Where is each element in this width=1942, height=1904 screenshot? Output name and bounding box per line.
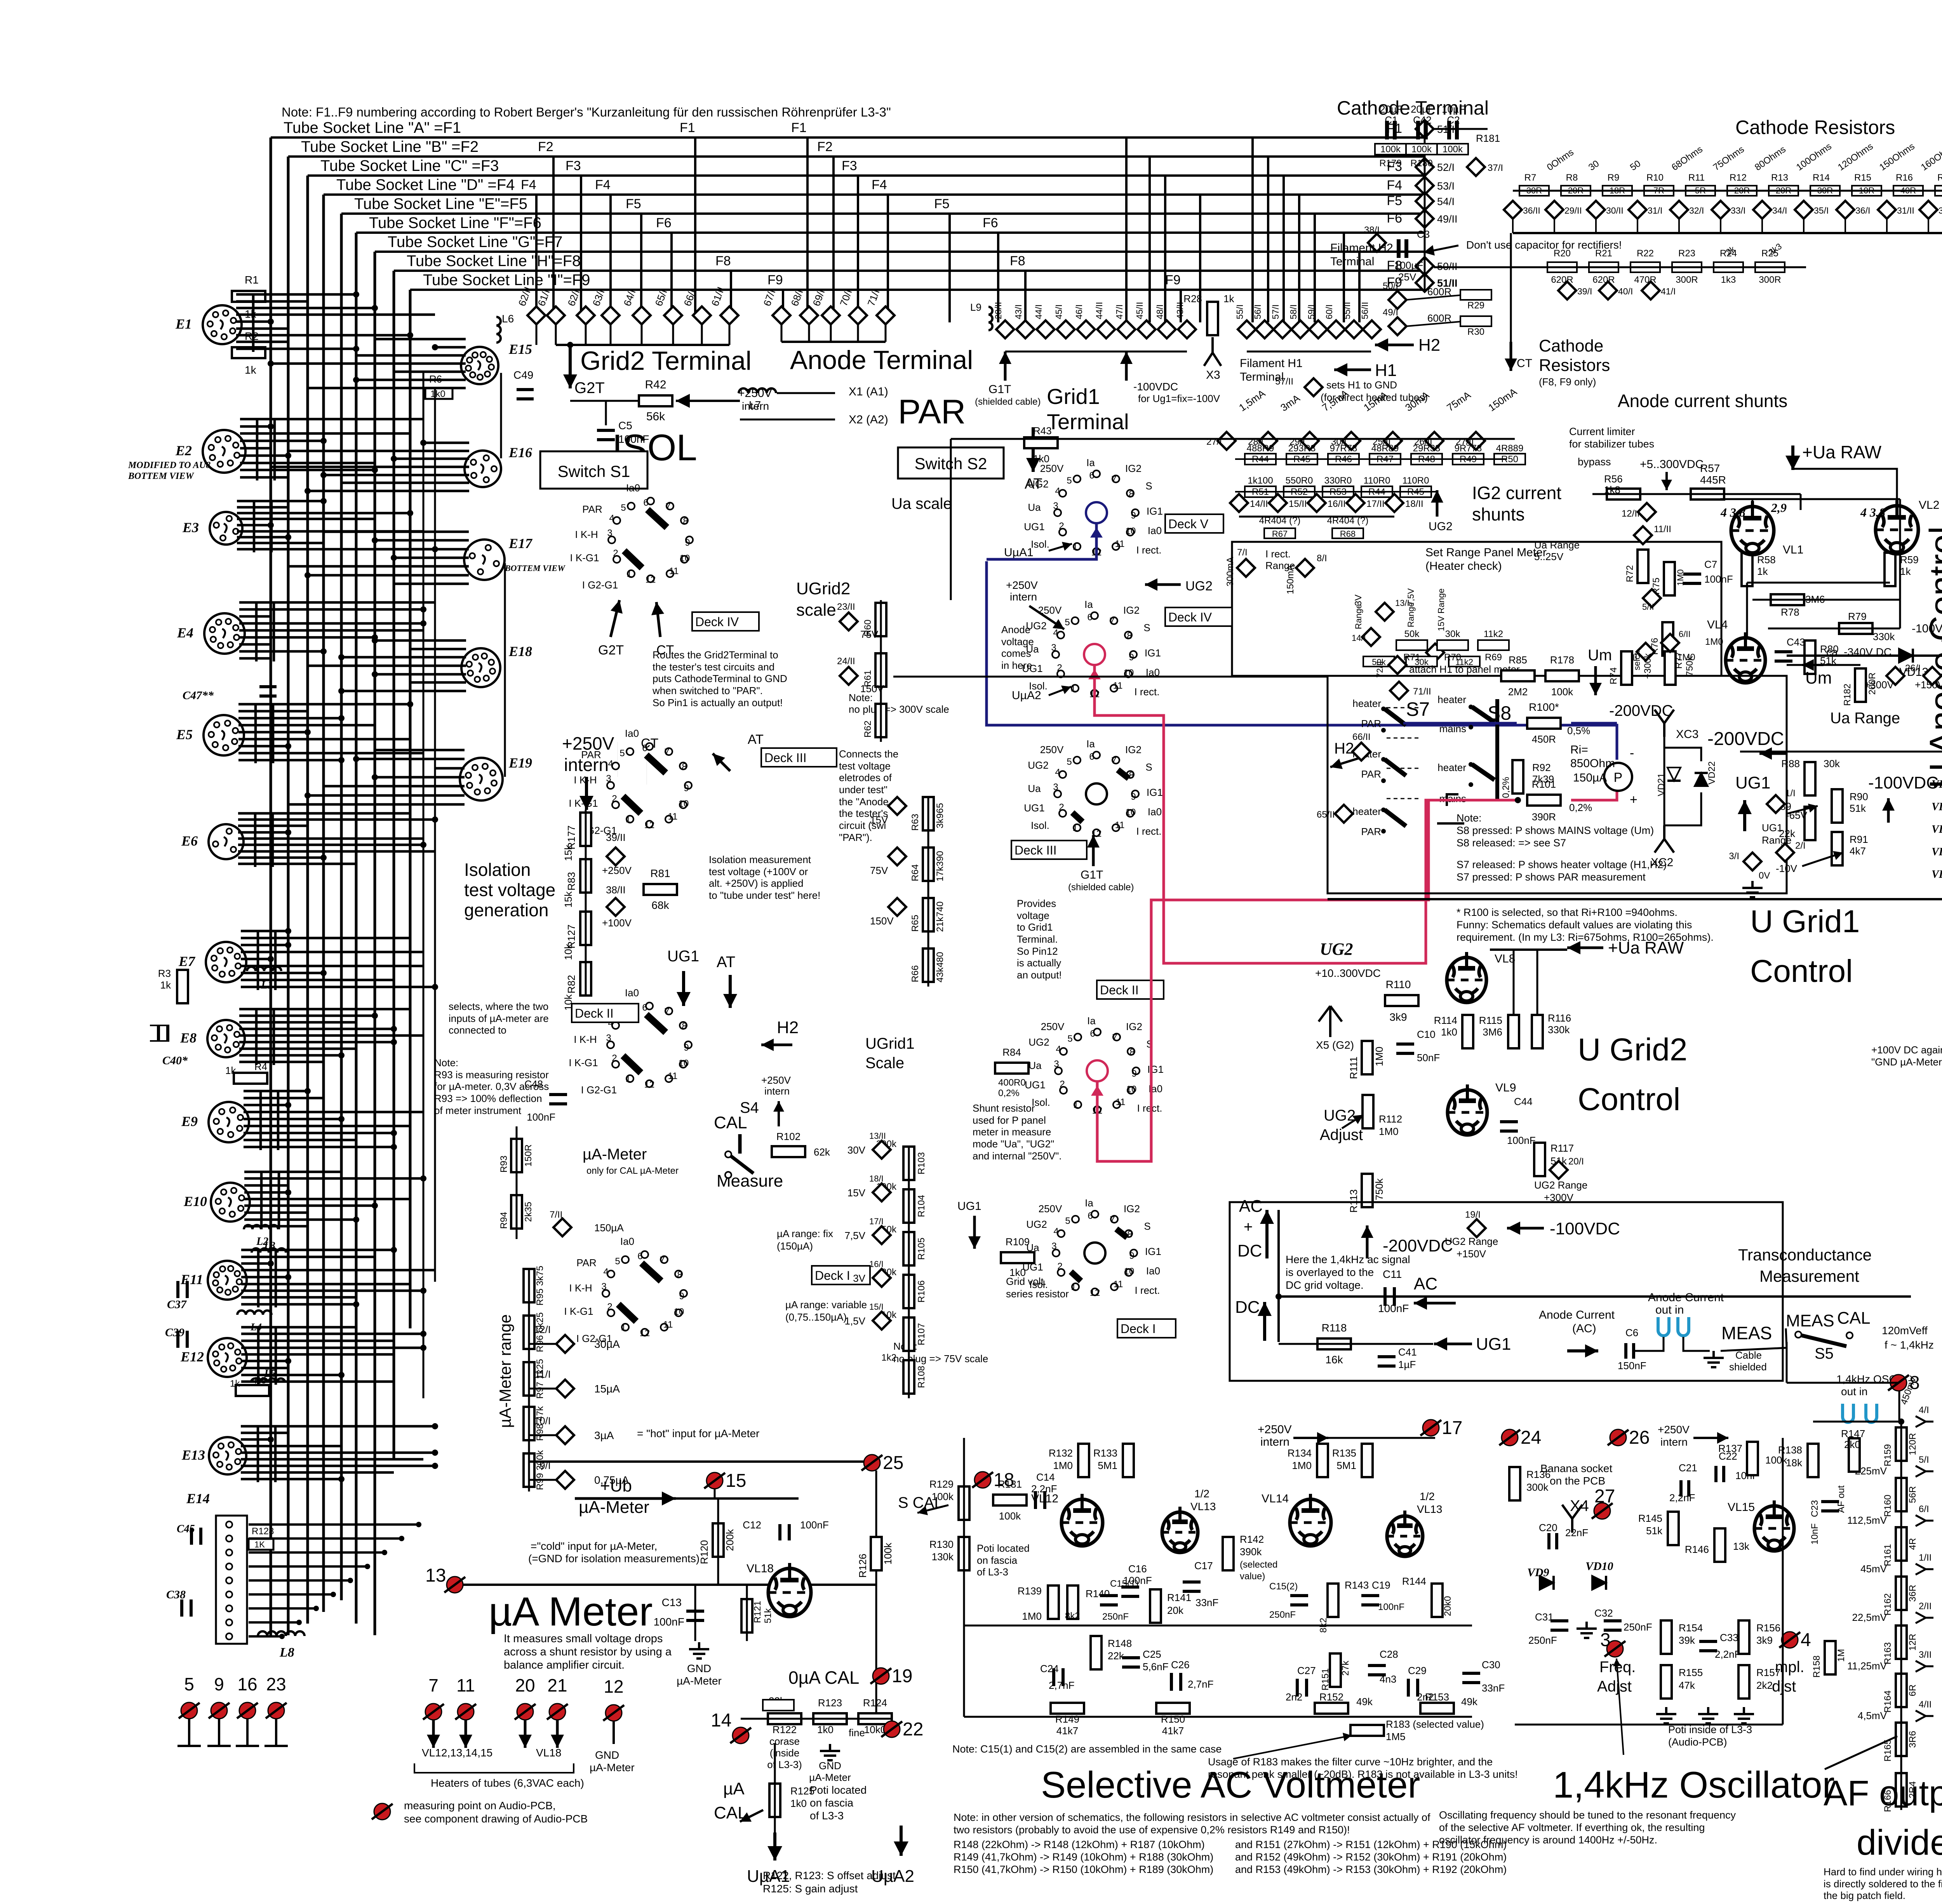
svg-text:Ia: Ia [1086, 738, 1095, 750]
plug 71/I [877, 306, 894, 324]
resistor R152 49k [1315, 1703, 1348, 1714]
capacitor C28 4n3 [1368, 1666, 1386, 1675]
resistor R58 1k [1742, 553, 1752, 586]
wire vm mid rail [964, 1625, 1472, 1627]
svg-text:F5: F5 [1387, 193, 1402, 208]
arrow point 21 [551, 1720, 564, 1748]
resistor R57 445R [1691, 489, 1724, 499]
arrow G1T [999, 352, 1011, 381]
svg-text:19: 19 [892, 1666, 912, 1686]
svg-text:* R100 is selected, so that Ri: * R100 is selected, so that Ri+R100 =940… [1456, 907, 1677, 918]
svg-text:PAR: PAR [1361, 826, 1381, 837]
plug 10/I [556, 1426, 574, 1444]
svg-text:F4: F4 [521, 178, 536, 192]
svg-text:C17: C17 [1194, 1560, 1213, 1572]
wire [808, 324, 810, 342]
resistor R20 620R [1547, 262, 1577, 272]
svg-text:55/II: 55/II [1342, 302, 1352, 319]
svg-text:R93 is measuring resistor: R93 is measuring resistor [434, 1069, 549, 1081]
svg-text:R130: R130 [929, 1539, 954, 1550]
ground ug1 range [1742, 881, 1763, 897]
svg-text:6/I: 6/I [1919, 1504, 1929, 1514]
resistor R138 18k [1808, 1444, 1818, 1477]
svg-text:R77: R77 [1674, 652, 1684, 669]
capacitor C45 [191, 1528, 201, 1545]
svg-text:CT: CT [641, 736, 658, 751]
svg-text:36/II: 36/II [1523, 205, 1540, 216]
svg-text:only for CAL µA-Meter: only for CAL µA-Meter [586, 1166, 679, 1176]
svg-text:5: 5 [1065, 1216, 1070, 1226]
svg-text:UG2: UG2 [1429, 520, 1453, 533]
svg-text:C14: C14 [1036, 1471, 1055, 1483]
resistor R149 41k7 [1051, 1703, 1084, 1714]
tube socket E12 [180, 1338, 247, 1377]
capacitor C32 250nF [1604, 1621, 1622, 1630]
socket osc in [1866, 1404, 1877, 1422]
resistor R137 100k [1747, 1442, 1758, 1475]
svg-text:PAR: PAR [1361, 718, 1381, 729]
wire navy UuA1 run [987, 561, 1617, 760]
svg-text:R69: R69 [1485, 652, 1502, 663]
section label isolation test voltage generation [464, 860, 555, 920]
plug 38/II [607, 898, 625, 916]
svg-text:R67: R67 [1272, 529, 1288, 539]
resistor R61 [875, 653, 886, 687]
svg-text:R112: R112 [1379, 1113, 1402, 1125]
wire shunt top bus [1220, 438, 1515, 440]
svg-text:7,5V: 7,5V [845, 1230, 866, 1241]
wire drop F6 [670, 233, 673, 315]
svg-text:Ia0: Ia0 [625, 727, 639, 739]
svg-text:(shielded cable): (shielded cable) [975, 397, 1041, 407]
svg-text:(=GND for isolation measuremen: (=GND for isolation measurements) [528, 1552, 700, 1565]
svg-text:110R0: 110R0 [1403, 475, 1429, 486]
svg-text:U Grid1: U Grid1 [1750, 904, 1860, 939]
svg-text:22,5mV: 22,5mV [1852, 1612, 1887, 1623]
capacitor C26 27nF [1171, 1673, 1181, 1691]
svg-text:57/I: 57/I [1270, 305, 1281, 319]
svg-text:2n2: 2n2 [1286, 1691, 1302, 1703]
svg-text:5: 5 [615, 1256, 620, 1267]
capacitor C10 50nF [1396, 1044, 1414, 1053]
svg-text:mode "Ua", "UG2": mode "Ua", "UG2" [973, 1138, 1054, 1150]
wire bus drop I [409, 290, 412, 1328]
wire r79 row [1768, 628, 1900, 630]
resistor R164 6R [1896, 1674, 1907, 1707]
resistor R45 boxed [1286, 454, 1317, 465]
ground GND uA-meter C13 [689, 1642, 709, 1659]
svg-text:µA Meter: µA Meter [489, 1589, 653, 1634]
svg-text:4: 4 [1801, 1630, 1811, 1650]
plug 27/II shunt [1467, 432, 1485, 450]
resistor R109 1k0 [1001, 1252, 1034, 1263]
plug 15Vr [1426, 644, 1444, 661]
svg-text:(selected: (selected [1240, 1559, 1277, 1570]
svg-text:R152: R152 [1319, 1691, 1343, 1703]
svg-text:7: 7 [1111, 474, 1116, 485]
svg-text:(F8, F9 only): (F8, F9 only) [1539, 376, 1596, 388]
svg-text:19/I: 19/I [1465, 1210, 1481, 1220]
svg-text:8: 8 [1129, 489, 1134, 499]
resistor R43 1k0 [1024, 437, 1058, 448]
svg-text:4 3,8: 4 3,8 [1860, 505, 1885, 519]
socket anode current out [1658, 1317, 1669, 1336]
svg-text:Adjust: Adjust [1320, 1126, 1363, 1143]
svg-text:VL9: VL9 [1495, 1081, 1516, 1094]
resistor R143 8k2 [1328, 1584, 1338, 1617]
wire bus drop G [374, 252, 376, 1635]
svg-text:I rect.: I rect. [1134, 686, 1159, 698]
svg-text:I rect.: I rect. [1265, 548, 1291, 560]
svg-text:R135: R135 [1332, 1447, 1356, 1459]
svg-text:12: 12 [644, 1079, 655, 1090]
measuring point 23 [266, 1702, 287, 1719]
svg-text:51k: 51k [763, 1608, 773, 1624]
note r148 list [954, 1839, 1213, 1875]
wire [1406, 295, 1460, 300]
svg-text:X5 (G2): X5 (G2) [1316, 1039, 1354, 1051]
svg-text:MODIFIED TO AU8: MODIFIED TO AU8 [128, 460, 211, 470]
svg-text:µA-Meter: µA-Meter [677, 1675, 722, 1687]
svg-text:250nF: 250nF [1528, 1634, 1557, 1646]
resistor R132 1M0 [1078, 1444, 1089, 1477]
svg-text:E4: E4 [177, 625, 193, 640]
plug 2/II af [1916, 1612, 1933, 1623]
svg-text:10: 10 [674, 1307, 684, 1317]
svg-text:5..25V: 5..25V [1534, 551, 1564, 562]
arrow 250 vm [1293, 1432, 1328, 1444]
svg-text:F4: F4 [1387, 178, 1402, 193]
plug 8/I [1296, 559, 1314, 577]
svg-text:10nF: 10nF [1810, 1523, 1820, 1545]
svg-text:15k: 15k [562, 891, 574, 908]
svg-text:38/II: 38/II [606, 884, 626, 896]
wire [729, 324, 731, 345]
svg-text:and R152 (49kOhm) -> R152 (30: and R152 (49kOhm) -> R152 (30kOhm) + R19… [1235, 1851, 1507, 1863]
svg-text:100k: 100k [1380, 144, 1401, 155]
svg-text:1M0: 1M0 [1053, 1460, 1073, 1471]
svg-text:27k: 27k [1340, 1660, 1351, 1676]
resistor R70 30k [1437, 640, 1468, 650]
svg-text:R132: R132 [1049, 1447, 1073, 1459]
svg-text:14/II: 14/II [1250, 499, 1268, 509]
svg-text:R43: R43 [1033, 425, 1052, 437]
svg-text:R3: R3 [158, 968, 171, 979]
svg-text:Routes the Grid2Terminal to: Routes the Grid2Terminal to [653, 649, 778, 661]
svg-text:I G2-G1: I G2-G1 [581, 1084, 617, 1096]
svg-text:200k: 200k [724, 1529, 736, 1551]
svg-text:Ua: Ua [1028, 783, 1041, 794]
resistor R118 16k [1317, 1338, 1351, 1349]
svg-text:UµA1: UµA1 [1004, 546, 1034, 559]
resistor R96 6k25 [524, 1316, 534, 1349]
tube socket E13 [181, 1437, 246, 1474]
svg-text:21k740: 21k740 [935, 902, 945, 932]
wire grid1 bus [1005, 351, 1187, 353]
svg-text:X4: X4 [1570, 1497, 1589, 1514]
svg-text:1,5V: 1,5V [845, 1315, 866, 1327]
svg-text:1µF: 1µF [1398, 1359, 1416, 1370]
svg-text:150µA: 150µA [594, 1222, 624, 1234]
wire long left vm [963, 1438, 965, 1717]
svg-text:µA-Meter: µA-Meter [590, 1761, 635, 1773]
plug 75V g1 [888, 848, 906, 865]
svg-text:3M6: 3M6 [1483, 1026, 1502, 1038]
svg-text:18k: 18k [1786, 1457, 1803, 1469]
svg-text:100k: 100k [1443, 144, 1463, 155]
svg-text:Isol.: Isol. [1031, 820, 1049, 831]
svg-text:R81: R81 [650, 867, 670, 879]
svg-text:Ua Range: Ua Range [1534, 539, 1580, 551]
svg-text:G2T: G2T [598, 643, 624, 658]
svg-text:16k: 16k [1325, 1354, 1343, 1366]
svg-text:29R33: 29R33 [1413, 443, 1441, 454]
wire vm top rail [1328, 1437, 1435, 1439]
svg-text:7: 7 [664, 1006, 669, 1017]
wire cathode res top [1513, 190, 1942, 192]
plug 15/I g1s [873, 1312, 891, 1330]
svg-text:1k: 1k [1757, 566, 1768, 577]
wire point 16 [246, 1719, 249, 1746]
svg-text:3: 3 [1600, 1630, 1611, 1650]
wire drop F4 [535, 195, 538, 315]
svg-text:F6: F6 [983, 216, 998, 230]
svg-text:R91: R91 [1850, 834, 1868, 845]
svg-text:7: 7 [1109, 616, 1114, 627]
svg-text:Deck IV: Deck IV [1168, 610, 1212, 624]
svg-text:3R6: 3R6 [1907, 1731, 1918, 1748]
svg-text:15: 15 [726, 1471, 746, 1491]
svg-text:3: 3 [601, 1281, 606, 1292]
svg-text:5M1: 5M1 [1098, 1460, 1117, 1471]
svg-text:250nF: 250nF [1269, 1610, 1296, 1620]
svg-text:C31: C31 [1535, 1611, 1554, 1623]
svg-text:intern: intern [1260, 1436, 1289, 1448]
svg-text:Ua Range: Ua Range [1830, 710, 1900, 727]
svg-text:µA-Meter: µA-Meter [579, 1498, 649, 1517]
inductor L8 [258, 1631, 305, 1636]
svg-text:Deck V: Deck V [1168, 517, 1209, 531]
plug 38/I [1368, 234, 1386, 252]
svg-text:1: 1 [625, 814, 630, 825]
svg-text:U Anode Control: U Anode Control [1923, 526, 1942, 788]
plug 41/I [1642, 282, 1660, 299]
svg-text:4: 4 [608, 759, 613, 769]
wire drop F2 [552, 157, 555, 315]
resistor R6 1k0 boxed [425, 388, 452, 399]
wire drop F4 right [887, 195, 889, 315]
wire [701, 324, 703, 345]
svg-text:11: 11 [456, 1675, 475, 1695]
svg-text:Isol.: Isol. [1031, 538, 1049, 550]
svg-text:72/II: 72/II [1375, 661, 1385, 678]
svg-text:E10: E10 [183, 1194, 207, 1209]
resistor R121 51k [741, 1599, 752, 1632]
resistor R46 boxed [1328, 454, 1359, 465]
rotary switch Deck II µA-meter [569, 987, 692, 1096]
rotary switch Deck III isolation [569, 727, 837, 836]
svg-text:Note:: Note: [434, 1057, 458, 1069]
plug 61/II [720, 306, 738, 324]
svg-text:alt. +250V) is applied: alt. +250V) is applied [709, 877, 804, 889]
svg-text:1: 1 [1072, 541, 1077, 552]
svg-text:µA-Meter range: µA-Meter range [496, 1314, 514, 1428]
pot R122 box [763, 1700, 794, 1711]
svg-text:Tube Socket Line "D" =F4: Tube Socket Line "D" =F4 [336, 176, 515, 193]
tube socket E17 [464, 536, 533, 580]
plug 50/I [1389, 291, 1406, 309]
svg-text:R16: R16 [1896, 172, 1913, 183]
resistor R75 1M0 [1664, 562, 1675, 595]
svg-text:12: 12 [646, 574, 656, 585]
svg-text:R8: R8 [1566, 172, 1578, 183]
measuring point 27 [1592, 1486, 1615, 1519]
resistor R101 390R [1527, 795, 1561, 806]
resistor R147 2k0 [1849, 1438, 1860, 1472]
svg-text:9: 9 [1129, 652, 1134, 663]
wire drop F3 right [857, 176, 859, 315]
plug 3/I [1744, 853, 1761, 870]
svg-text:UG1: UG1 [1476, 1335, 1511, 1354]
resistor R23 300R [1672, 262, 1702, 272]
plug 28/I shunt [1259, 432, 1277, 450]
note provides voltage [1017, 898, 1062, 981]
svg-text:48R89: 48R89 [1371, 443, 1399, 454]
svg-text:44/II: 44/II [1094, 302, 1104, 319]
plug 51/I [1416, 120, 1434, 138]
capacitor C40 stub [150, 1025, 169, 1041]
svg-text:11: 11 [668, 811, 678, 822]
note oscillating freq [1439, 1809, 1736, 1846]
svg-text:9R778: 9R778 [1455, 443, 1482, 454]
svg-text:12: 12 [1090, 1288, 1100, 1298]
svg-text:UG2: UG2 [1026, 1218, 1047, 1230]
svg-text:PAR: PAR [576, 1257, 597, 1269]
measuring point 18 [972, 1470, 1014, 1490]
svg-text:150V: 150V [860, 683, 884, 694]
svg-text:R1: R1 [245, 274, 259, 286]
resistor R123 1k0 fine [813, 1713, 847, 1724]
socket osc out [1843, 1404, 1853, 1422]
wire tube socket line G [375, 251, 1425, 253]
resistor R8 20R [1561, 186, 1590, 196]
arrow ug1 ac [1434, 1337, 1472, 1351]
svg-text:R141: R141 [1167, 1592, 1191, 1603]
svg-text:33nF: 33nF [1195, 1597, 1218, 1608]
wire E14 staircase stubs [249, 1522, 421, 1639]
svg-text:R66: R66 [910, 965, 921, 982]
svg-text:Set Range Panel Meter: Set Range Panel Meter [1425, 546, 1547, 559]
wire 15 stub [714, 1489, 716, 1498]
svg-text:used for P panel: used for P panel [973, 1114, 1046, 1126]
svg-text:100nF: 100nF [1704, 573, 1733, 585]
svg-text:intern: intern [1010, 591, 1037, 603]
svg-text:+: + [1630, 792, 1637, 807]
svg-text:17: 17 [1442, 1418, 1462, 1438]
svg-text:11: 11 [663, 1319, 673, 1330]
inductor L5 [251, 1378, 285, 1383]
arrow H1 terminal [1334, 363, 1371, 376]
svg-text:across a shunt resistor by usi: across a shunt resistor by using a [504, 1646, 672, 1658]
svg-text:R153: R153 [1425, 1691, 1449, 1703]
svg-text:IG1: IG1 [1147, 505, 1163, 517]
svg-text:UG1: UG1 [1762, 822, 1782, 834]
svg-text:I G2-G1: I G2-G1 [582, 579, 618, 591]
resistor R25 300R [1755, 262, 1785, 272]
svg-text:Note: F1..F9 numbering accord: Note: F1..F9 numbering according to Robe… [282, 105, 891, 119]
svg-text:4: 4 [603, 1267, 608, 1277]
rotary switch Deck II shunt [1025, 980, 1164, 1116]
svg-text:300mA: 300mA [1225, 557, 1236, 587]
svg-text:14: 14 [711, 1710, 731, 1731]
svg-text:58/I: 58/I [1288, 305, 1298, 319]
wire shunt chain [1235, 458, 1507, 460]
resistor R22 470R [1631, 262, 1660, 272]
svg-text:15/I: 15/I [869, 1302, 884, 1312]
resistor R140 8k2 [1067, 1586, 1078, 1619]
wire grid2 bus [556, 344, 729, 346]
svg-text:AC: AC [1414, 1274, 1437, 1293]
wire point 23 base [265, 1745, 288, 1747]
svg-text:2: 2 [1057, 663, 1062, 673]
svg-text:750k: 750k [1373, 1178, 1385, 1200]
svg-text:10: 10 [1126, 807, 1136, 818]
svg-text:It measures small voltage drop: It measures small voltage drops [504, 1632, 663, 1645]
svg-text:40/I: 40/I [1618, 286, 1633, 296]
svg-text:850Ohm: 850Ohm [1570, 757, 1615, 770]
svg-text:150V: 150V [870, 915, 894, 927]
svg-text:R122, R123: S offset adjust: R122, R123: S offset adjust [763, 1869, 896, 1881]
svg-text:Deck I: Deck I [815, 1269, 850, 1283]
svg-text:44/I: 44/I [1034, 305, 1044, 319]
svg-text:11/II: 11/II [1654, 524, 1671, 534]
capacitor C16 100nF [1121, 1587, 1139, 1596]
svg-text:C40*: C40* [162, 1054, 188, 1067]
svg-text:R124: R124 [863, 1697, 887, 1709]
rotary switch Deck V [1024, 457, 1223, 558]
svg-text:400R0: 400R0 [998, 1077, 1026, 1088]
resistor R163 12R [1896, 1626, 1907, 1659]
plug 65/I [664, 306, 682, 324]
arrow -200VDC big [1759, 747, 1787, 760]
svg-text:Control: Control [1578, 1082, 1680, 1117]
wire [1720, 218, 1721, 233]
svg-text:C2: C2 [1447, 114, 1460, 126]
svg-text:46/I: 46/I [1074, 305, 1084, 319]
svg-text:R116: R116 [1548, 1012, 1571, 1024]
svg-text:0,5%: 0,5% [1567, 725, 1590, 736]
arrow +Ua RAW left [1785, 446, 1800, 470]
svg-text:Deck II: Deck II [1100, 983, 1139, 997]
svg-text:Grid volt.: Grid volt. [1006, 1276, 1046, 1287]
svg-text:-100VDC: -100VDC [1868, 773, 1939, 792]
svg-text:1: 1 [1072, 823, 1077, 833]
plug 53/I [1416, 177, 1434, 195]
wire s5 rail [1787, 1382, 1899, 1384]
resistor R14 30R [1810, 186, 1840, 196]
resistor R74 select [1621, 651, 1632, 685]
resistor R95 3k75 [524, 1269, 534, 1302]
tube socket E16 [465, 445, 532, 487]
wire ua raw g2 [1490, 949, 1567, 951]
svg-text:52/I: 52/I [1437, 162, 1455, 173]
resistor R82 10k [580, 962, 591, 996]
svg-text:1M0: 1M0 [1022, 1610, 1042, 1622]
arrow H2 terminal [1375, 338, 1414, 352]
resistor R150 41k7 [1156, 1703, 1190, 1714]
svg-text:2: 2 [1060, 1079, 1065, 1089]
svg-text:Ia: Ia [1085, 1197, 1093, 1209]
